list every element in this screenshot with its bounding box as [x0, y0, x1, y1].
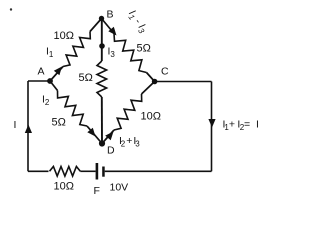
- arrow I2 (A to D, near D): [87, 128, 95, 137]
- resistor R_DC 10ohm: [114, 94, 142, 130]
- resistor R_AB 10ohm: [63, 32, 90, 67]
- wire B to BC-resistor: [102, 19, 115, 34]
- resistor 10ohm bottom: [50, 167, 81, 177]
- resistor R_BC 5ohm: [114, 34, 147, 73]
- resistor R_BD 5ohm middle: [97, 61, 107, 97]
- wire top-right corner to C: [155, 81, 212, 83]
- arrow B to C: [108, 27, 116, 36]
- svg-text:10Ω: 10Ω: [141, 111, 161, 123]
- svg-text:10Ω: 10Ω: [54, 181, 74, 193]
- arrow I1+I2 down (right wire): [208, 119, 215, 128]
- wire BC-resistor to C: [147, 73, 155, 82]
- resistor R_AD 5ohm: [58, 91, 88, 127]
- node A: [47, 78, 53, 84]
- svg-text:10Ω: 10Ω: [54, 30, 74, 42]
- svg-text:D: D: [107, 145, 115, 157]
- node B: [99, 16, 104, 21]
- wire right side up: [211, 82, 213, 172]
- wire B down to junction: [101, 19, 103, 62]
- svg-text:C: C: [161, 66, 169, 78]
- wire resistor to battery: [80, 170, 95, 172]
- svg-text:10V: 10V: [110, 182, 129, 194]
- junction dot I3: [99, 43, 105, 49]
- wire left side down: [27, 81, 29, 171]
- svg-text:I: I: [14, 119, 17, 131]
- svg-text:A: A: [38, 66, 45, 78]
- svg-text:5Ω: 5Ω: [137, 43, 151, 55]
- wire AD-resistor to D: [87, 126, 102, 144]
- wire battery to bottom-right corner: [105, 170, 212, 172]
- speck dot top-left: [10, 8, 12, 10]
- svg-text:F: F: [94, 185, 100, 197]
- arrow I up (left wire): [25, 125, 32, 134]
- arrow I1 (A to B): [54, 67, 62, 76]
- wire A to AD-resistor: [50, 81, 58, 91]
- wire A to left edge: [28, 80, 50, 82]
- node C: [152, 79, 158, 85]
- wire bottom left to resistor: [28, 170, 49, 172]
- wire A to AB-resistor: [50, 67, 63, 82]
- battery F left plate: [96, 163, 99, 180]
- wire middle resistor to D: [101, 97, 103, 144]
- node D: [99, 140, 105, 146]
- wire AB-resistor to B: [90, 19, 102, 32]
- battery F right plate: [102, 167, 105, 177]
- svg-text:B: B: [107, 9, 114, 21]
- arrow D to C: [105, 132, 113, 141]
- svg-text:5Ω: 5Ω: [52, 117, 66, 129]
- wire D to DC-resistor: [102, 130, 114, 144]
- wire DC-resistor to C: [142, 82, 155, 95]
- svg-text:5Ω: 5Ω: [79, 72, 93, 84]
